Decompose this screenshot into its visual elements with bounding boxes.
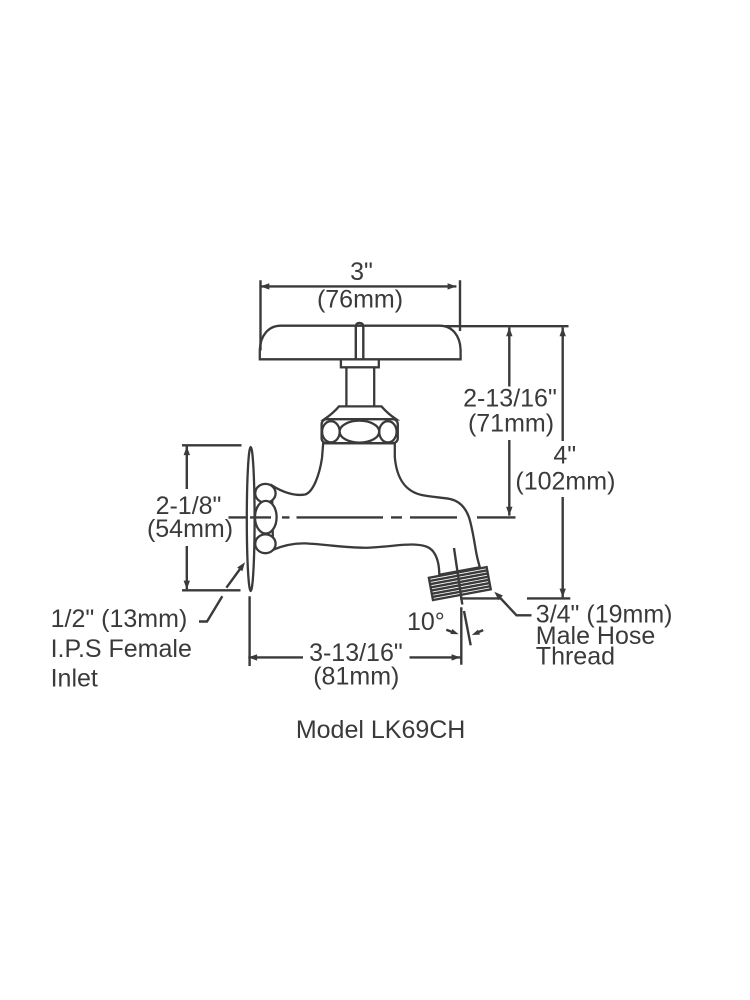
- dim 3in: extension lines: [261, 280, 461, 350]
- shank bead middle: [255, 501, 277, 534]
- svg-text:(54mm): (54mm): [147, 515, 233, 543]
- bonnet hex nut: [322, 419, 398, 443]
- handle top reference line: [444, 325, 569, 327]
- svg-text:10°: 10°: [407, 608, 445, 636]
- centerline: [229, 516, 516, 518]
- svg-text:1/2" (13mm): 1/2" (13mm): [51, 605, 188, 633]
- svg-text:Thread: Thread: [536, 643, 615, 671]
- packing flare below stem: [324, 406, 397, 419]
- svg-text:2-13/16": 2-13/16": [463, 385, 557, 413]
- svg-text:Inlet: Inlet: [51, 664, 98, 692]
- stem: [346, 367, 374, 406]
- handle: [260, 326, 461, 360]
- dim 3-13/16: extension lines: [250, 596, 462, 666]
- leader 1/2 inlet: [199, 567, 242, 622]
- svg-text:(76mm): (76mm): [317, 286, 403, 314]
- handle screw stem cap: [356, 323, 364, 359]
- svg-text:4": 4": [553, 442, 576, 470]
- wall flange: [247, 447, 255, 591]
- svg-text:3": 3": [350, 258, 373, 286]
- dim 2-1/8: line: [186, 446, 188, 589]
- shank bead bottom: [255, 534, 275, 553]
- threaded hose outlet (3/4 male thread): [429, 567, 491, 600]
- 10 deg slant axis line: [454, 548, 471, 645]
- svg-text:(81mm): (81mm): [313, 663, 399, 691]
- dim 4in bottom reference ticks: [460, 597, 570, 599]
- dim 2-1/8: ticks: [182, 445, 242, 590]
- shank bead top: [255, 484, 275, 503]
- dim 4in: line: [562, 327, 564, 597]
- 10 deg small arrows: [446, 630, 483, 633]
- svg-text:(71mm): (71mm): [468, 410, 554, 438]
- dim 2-13/16: line: [508, 327, 510, 515]
- svg-text:Model LK69CH: Model LK69CH: [296, 716, 466, 744]
- svg-text:(102mm): (102mm): [515, 468, 615, 496]
- dim 3in: dimension line: [261, 285, 457, 287]
- handle hub: [341, 359, 379, 367]
- dim 3-13/16: line: [248, 656, 460, 658]
- dim 3in arrows: [261, 283, 270, 289]
- faucet body (spout arm and neck): [272, 443, 480, 575]
- leader 3/4 thread: [497, 595, 532, 616]
- svg-text:I.P.S Female: I.P.S Female: [51, 635, 192, 663]
